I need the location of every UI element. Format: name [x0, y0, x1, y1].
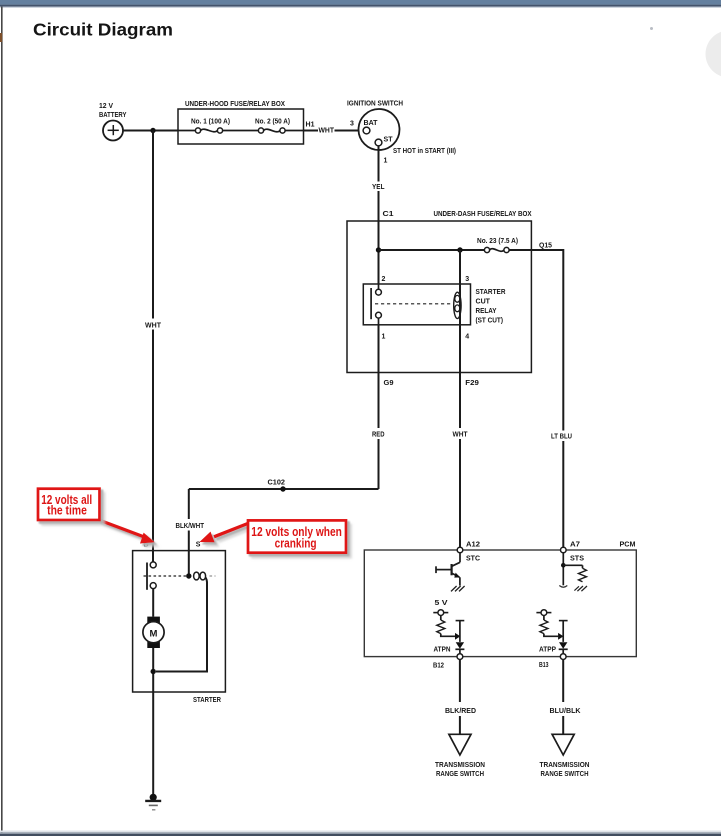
pin A12: [457, 542, 480, 563]
starter solenoid coil: [156, 572, 207, 671]
STS sense node: [559, 553, 582, 587]
svg-text:ATPP: ATPP: [539, 647, 556, 654]
svg-text:Q15: Q15: [539, 243, 552, 250]
svg-text:3: 3: [465, 276, 469, 283]
wire resistor to diode node: [441, 633, 461, 640]
under-hood fuse/relay box: [178, 101, 304, 144]
svg-text:1: 1: [382, 334, 386, 341]
svg-text:UNDER-HOOD FUSE/RELAY BOX: UNDER-HOOD FUSE/RELAY BOX: [185, 101, 285, 108]
resistor ATPN pull-up: [437, 620, 445, 634]
transistor STC driver: [436, 553, 460, 586]
svg-text:Circuit Diagram: Circuit Diagram: [33, 19, 173, 39]
svg-text:ATPN: ATPN: [434, 647, 451, 654]
pin B13: [539, 654, 566, 670]
chassis ground STS: [574, 586, 587, 591]
relay mechanical link (dashed): [375, 303, 453, 305]
svg-text:A12: A12: [466, 542, 480, 549]
bottom window bar: [0, 831, 721, 836]
svg-text:LT BLU: LT BLU: [551, 434, 572, 441]
starter box: [133, 551, 226, 705]
relay switch contacts: [371, 284, 381, 325]
wire YEL ignition ST to under-dash C1: [372, 146, 385, 221]
svg-text:CUT: CUT: [476, 299, 491, 306]
annotation: 12 volts all the time: [38, 489, 100, 520]
svg-text:ST: ST: [384, 136, 394, 143]
node junction relay pin3 feed: [457, 247, 462, 252]
svg-text:BLU/BLK: BLU/BLK: [550, 708, 581, 715]
under-dash fuse/relay box: [347, 211, 532, 373]
svg-text:1: 1: [384, 157, 388, 164]
wire RED relay pin1 to C102 run: [372, 325, 385, 489]
svg-text:the time: the time: [47, 504, 87, 518]
5V reference ATPN: [433, 600, 448, 620]
svg-text:ST HOT in START (III): ST HOT in START (III): [393, 148, 456, 155]
top window bar: [0, 0, 721, 8]
annotation arrow to B terminal: [99, 520, 155, 544]
wire feed to fuse 23: [379, 249, 485, 251]
svg-text:H1: H1: [306, 121, 315, 128]
svg-text:WHT: WHT: [453, 432, 469, 439]
annotation: 12 volts only when cranking: [248, 520, 346, 552]
svg-text:C1: C1: [383, 211, 394, 218]
wire C1 into box down to relay pin 2: [378, 221, 380, 284]
svg-text:WHT: WHT: [145, 322, 162, 329]
pin A7: [561, 542, 585, 563]
svg-text:STC: STC: [466, 556, 480, 563]
relay coil: [454, 250, 461, 325]
wire LT BLU fuse 23 to PCM A7: [509, 250, 572, 547]
diode ATPP: [539, 642, 568, 654]
connector arrow to transmission range switch (right): [540, 734, 590, 778]
svg-text:TRANSMISSION: TRANSMISSION: [435, 762, 485, 769]
svg-text:STARTER: STARTER: [193, 697, 221, 704]
watermark circle: [706, 31, 721, 78]
svg-text:RANGE SWITCH: RANGE SWITCH: [541, 771, 589, 778]
wire BLU/BLK B13 to range switch: [550, 660, 581, 735]
fuse No.1 (100 A): [178, 119, 258, 134]
svg-text:No. 1 (100 A): No. 1 (100 A): [191, 119, 230, 126]
resistor STS pulldown: [579, 568, 587, 582]
svg-text:No. 23 (7.5 A): No. 23 (7.5 A): [477, 238, 518, 245]
svg-text:YEL: YEL: [372, 184, 385, 191]
svg-text:4: 4: [465, 334, 469, 341]
starter solenoid switch: [147, 551, 156, 617]
svg-text:B12: B12: [433, 663, 444, 670]
svg-text:2: 2: [382, 276, 386, 283]
svg-text:BATTERY: BATTERY: [99, 112, 127, 119]
svg-text:3: 3: [350, 120, 354, 127]
svg-text:5 V: 5 V: [435, 600, 448, 607]
svg-text:RED: RED: [372, 432, 385, 439]
svg-text:No. 2 (50 A): No. 2 (50 A): [255, 119, 290, 126]
svg-text:IGNITION SWITCH: IGNITION SWITCH: [347, 100, 403, 107]
svg-text:BAT: BAT: [364, 120, 379, 127]
svg-text:(ST CUT): (ST CUT): [476, 317, 504, 324]
comparator stub ATPN: [456, 621, 465, 642]
svg-text:STS: STS: [570, 556, 584, 563]
svg-text:RANGE SWITCH: RANGE SWITCH: [436, 771, 484, 778]
svg-text:F29: F29: [465, 380, 479, 387]
wire resistor to diode node (ATPP): [544, 633, 564, 640]
node junction C1 wire / fuse feed: [376, 247, 381, 252]
svg-text:PCM: PCM: [620, 542, 636, 549]
wire battery to under-hood box: [123, 130, 178, 132]
node S junction: [186, 573, 191, 578]
svg-text:BLK/WHT: BLK/WHT: [176, 523, 205, 530]
svg-text:A7: A7: [570, 542, 580, 549]
svg-text:B13: B13: [539, 662, 549, 669]
connector arrow to transmission range switch (left): [435, 734, 485, 778]
wire BLK/RED B12 to range switch: [445, 660, 476, 735]
svg-text:12 V: 12 V: [99, 103, 113, 110]
chassis ground STC: [451, 586, 465, 591]
5V reference ATPP: [536, 610, 551, 620]
left window edge: [0, 7, 3, 833]
wire WHT under-hood to ignition: [304, 127, 364, 134]
diode ATPN: [434, 642, 465, 654]
fuse No.2 (50 A): [255, 119, 304, 134]
ignition switch: [347, 100, 456, 155]
motor M: [143, 617, 164, 648]
wire motor to ground run: [152, 648, 154, 797]
annotation arrow to S terminal: [200, 524, 248, 543]
wire BLK/WHT down to starter S: [176, 489, 205, 576]
svg-text:cranking: cranking: [275, 536, 317, 550]
svg-text:TRANSMISSION: TRANSMISSION: [540, 762, 590, 769]
pin B12: [433, 654, 463, 670]
svg-text:STARTER: STARTER: [476, 289, 506, 296]
svg-text:UNDER-DASH FUSE/RELAY BOX: UNDER-DASH FUSE/RELAY BOX: [434, 211, 532, 218]
battery 12V: [99, 103, 127, 141]
node C102: [268, 480, 286, 492]
svg-text:BLK/RED: BLK/RED: [445, 708, 476, 715]
starter cut relay box: [363, 284, 505, 325]
fuse No.23 (7.5 A): [477, 238, 518, 252]
svg-text:RELAY: RELAY: [476, 308, 497, 315]
node battery junction: [150, 128, 155, 133]
wire WHT battery to starter B (vertical): [145, 131, 162, 551]
starter solenoid link (dashed): [144, 575, 187, 577]
node motor/coil junction: [151, 669, 156, 674]
svg-text:M: M: [150, 628, 158, 639]
svg-text:S: S: [196, 542, 201, 549]
PCM box: [364, 542, 636, 657]
resistor ATPP pull-up: [540, 620, 548, 634]
wire WHT relay pin4 to PCM A12: [453, 325, 469, 548]
wire C102 horizontal run: [189, 488, 379, 490]
svg-text:WHT: WHT: [319, 127, 335, 134]
ground: [145, 794, 161, 810]
comparator stub ATPP: [559, 621, 568, 642]
svg-text:G9: G9: [384, 380, 394, 387]
svg-text:C102: C102: [268, 480, 286, 487]
